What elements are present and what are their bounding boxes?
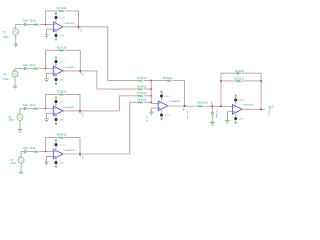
probe tick at output (269, 108, 271, 109)
svg-text:R7 56.2k: R7 56.2k (137, 93, 147, 95)
svg-text:R6 56.2k: R6 56.2k (137, 87, 147, 89)
svg-text:-15 V: -15 V (59, 119, 65, 121)
svg-text:vo4: vo4 (81, 156, 83, 160)
svg-text:56.2k: 56.2k (30, 65, 37, 67)
op-amp U2 (53, 66, 63, 76)
junction stage3 output node (79, 110, 81, 112)
U5 negative supply -15V terminal (160, 110, 170, 120)
ground at U1 non-inverting input (44, 35, 48, 38)
junction summing bus row 4 (150, 101, 152, 103)
wire stage2 input from V2 to U2 inverting input (15, 69, 53, 72)
resistor R1a input (33, 24, 39, 26)
probe tick at stage1 output (77, 28, 80, 30)
svg-text:mix_in: mix_in (146, 115, 148, 122)
svg-text:-15 V: -15 V (59, 79, 65, 81)
wire stage4 feedback loop (46, 138, 80, 154)
svg-text:+15 V: +15 V (59, 62, 65, 64)
resistor R1b feedback (59, 10, 65, 12)
ground below V1 (14, 44, 18, 47)
wire stage3 feedback loop (46, 94, 80, 111)
capacitor C3 (24, 107, 26, 110)
svg-text:1Vpk: 1Vpk (9, 120, 15, 122)
svg-text:V2: V2 (3, 74, 7, 76)
svg-text:R8 56.2k: R8 56.2k (137, 100, 147, 102)
junction rail R11 right (260, 80, 262, 82)
op-amp U6 filter (232, 105, 242, 115)
wire summing row 4 into node (130, 101, 152, 103)
wire V2 to ground (14, 77, 16, 86)
svg-text:out 1: out 1 (268, 105, 274, 108)
resistor R6 summing input (138, 88, 144, 90)
wire stage1 input from V1 to U1 inverting input (16, 24, 54, 28)
U2 positive supply +15V terminal (54, 56, 65, 66)
wire stage4 non-inverting input to ground (47, 156, 54, 161)
svg-text:U1 AD8605: U1 AD8605 (64, 22, 76, 25)
svg-text:U6 AD8605: U6 AD8605 (243, 104, 255, 107)
voltage source V4 (18, 156, 24, 163)
svg-text:+15 V: +15 V (239, 100, 245, 102)
svg-text:U4 AD8605: U4 AD8605 (64, 149, 76, 152)
svg-text:-15 V: -15 V (59, 163, 65, 165)
resistor R7 summing input (138, 95, 144, 97)
voltage source V3 (17, 113, 23, 120)
svg-text:56.2k: 56.2k (30, 148, 37, 150)
svg-text:R1 56.2k: R1 56.2k (57, 8, 67, 10)
svg-text:10nF: 10nF (23, 21, 29, 23)
U5 positive supply +15V terminal (160, 90, 171, 100)
svg-text:R11 56.2k: R11 56.2k (234, 79, 245, 81)
wire U5 feedback loop (151, 81, 184, 106)
capacitor C5 to ground (211, 112, 214, 114)
junction summing bus row 2 (150, 88, 152, 90)
U2 negative supply -15V terminal (54, 75, 64, 85)
junction stage4 output node (79, 153, 81, 155)
svg-text:-15 V: -15 V (164, 115, 170, 117)
wire stage2 output to summing row (63, 71, 97, 89)
junction stage4 inverting node (45, 151, 46, 152)
wire summing bus to U5 inverting input (151, 81, 158, 104)
wire U5 output row to U6 inverting input (168, 105, 233, 107)
svg-text:R2 56.2k: R2 56.2k (57, 47, 67, 49)
junction U5 output node (184, 105, 186, 107)
ground at U3 non-inverting input (44, 119, 48, 122)
resistor R5 summing input (138, 80, 144, 82)
wire stage4 input from V4 to U4 inverting input (21, 152, 53, 158)
svg-text:vout_1: vout_1 (267, 110, 270, 117)
ground at U4 non-inverting input (44, 162, 48, 165)
op-amp U3 (53, 106, 63, 116)
svg-text:10nF: 10nF (23, 148, 29, 150)
junction summing bus row 1 (150, 80, 152, 82)
probe tick at stage4 output (79, 155, 82, 157)
resistor R11 feedback (236, 80, 242, 82)
svg-text:+15 V: +15 V (59, 17, 65, 19)
U4 positive supply +15V terminal (54, 139, 65, 149)
U6 positive supply +15V terminal (234, 94, 245, 104)
wire U6 non-inverting input to ground (227, 112, 232, 121)
U3 positive supply +15V terminal (54, 96, 65, 106)
U6 negative supply -15V terminal (234, 114, 244, 124)
resistor R10 series (198, 105, 204, 107)
ground below C5 (210, 122, 214, 125)
junction stage3 inverting node (45, 108, 46, 109)
junction stage2 output node (79, 70, 81, 72)
wire U5 non-inverting input to ground (151, 108, 158, 112)
junction stage2 inverting node (45, 68, 46, 69)
junction summing bus row 3 (150, 95, 152, 97)
voltage source V2 (12, 70, 18, 77)
ground at U5 non-inverting input (149, 112, 153, 115)
wire node A feedback upper rail with C6 (221, 73, 261, 109)
svg-text:+15 V: +15 V (164, 96, 170, 98)
svg-text:vo3: vo3 (81, 112, 83, 116)
junction node A (220, 105, 222, 107)
wire U6 output (242, 108, 265, 110)
svg-text:U3 AD8605: U3 AD8605 (64, 106, 76, 109)
U4 negative supply -15V terminal (54, 158, 64, 168)
svg-text:U5 AD8605: U5 AD8605 (169, 100, 181, 103)
junction rail R11 left (220, 80, 222, 82)
svg-text:10nF: 10nF (23, 65, 29, 67)
probe tick at U5 output (182, 108, 185, 110)
wire stage1 non-inverting input to ground (47, 29, 54, 34)
svg-text:R10 56.2k: R10 56.2k (197, 102, 208, 104)
op-amp U5 summing amplifier (158, 101, 168, 111)
resistor R4a input (33, 151, 39, 153)
voltage source V1 (13, 27, 19, 34)
probe tick at stage3 output (79, 112, 82, 114)
capacitor C4 (24, 150, 26, 153)
resistor R3a input (33, 108, 39, 110)
circuit schematic: four AC-coupled inverting amplifier stages summed into U5 and low-pass filtered by U6 (0, 0, 320, 174)
wire summing row 3 into node (119, 95, 151, 97)
resistor R4b feedback (59, 137, 65, 139)
svg-text:C6 10nF: C6 10nF (235, 71, 245, 73)
wire C5 to ground (211, 106, 213, 122)
ground below V2 (13, 86, 17, 89)
svg-text:R5 56.2k: R5 56.2k (137, 78, 147, 80)
junction U6 output node (260, 108, 262, 110)
resistor R2b feedback (59, 50, 65, 52)
wire stage2 feedback loop (46, 50, 81, 71)
svg-text:56.2k: 56.2k (30, 105, 37, 107)
junction stage1 inverting node (45, 24, 46, 25)
svg-text:R3 56.2k: R3 56.2k (57, 92, 67, 94)
op-amp U1 (53, 22, 63, 32)
svg-text:1Vpk: 1Vpk (3, 79, 9, 81)
op-amp U4 (53, 149, 63, 159)
svg-text:U2 AD8605: U2 AD8605 (64, 66, 76, 69)
wire stage1 output to summing row (63, 27, 108, 81)
wire summing row 1 into node (108, 80, 152, 82)
svg-text:mix_out: mix_out (186, 111, 189, 119)
probe tick at stage2 output (79, 72, 82, 74)
wire stage3 non-inverting input to ground (47, 113, 54, 118)
svg-text:V1: V1 (3, 32, 7, 34)
wire summing row 2 into node (97, 88, 151, 90)
svg-text:1Vpk: 1Vpk (3, 37, 9, 39)
svg-text:+15 V: +15 V (59, 102, 65, 104)
svg-text:56.2k: 56.2k (30, 21, 37, 23)
junction capacitor C5 tap (211, 105, 213, 107)
resistor R3b feedback (59, 94, 65, 96)
ground below V3 (18, 130, 22, 133)
U1 negative supply -15V terminal (54, 31, 64, 41)
wire V4 to ground (20, 163, 22, 172)
ground at U2 non-inverting input (44, 79, 48, 82)
wire V3 to ground (19, 120, 21, 129)
wire node A feedback rail with R11 (221, 80, 261, 82)
svg-text:vo2: vo2 (81, 72, 83, 76)
resistor R9 feedback of U5 (167, 80, 173, 82)
ground below V4 (19, 172, 23, 175)
U1 positive supply +15V terminal (54, 12, 65, 22)
svg-text:V4: V4 (11, 160, 15, 162)
svg-text:R4 56.2k: R4 56.2k (57, 135, 67, 137)
U3 negative supply -15V terminal (54, 115, 64, 125)
svg-text:C5 10nF: C5 10nF (215, 109, 217, 118)
capacitor C2 (24, 67, 26, 70)
svg-text:10nF: 10nF (23, 105, 29, 107)
resistor R8 summing input (138, 102, 144, 104)
wire stage4 output to summing row (63, 102, 130, 154)
wire stage1 feedback loop (46, 11, 79, 27)
svg-text:vo1: vo1 (79, 28, 81, 32)
capacitor C1 (24, 23, 26, 26)
svg-text:-15 V: -15 V (59, 35, 65, 37)
wire stage2 non-inverting input to ground (47, 73, 54, 78)
ground at U6 non-inverting input (225, 120, 229, 123)
wire V1 to ground (15, 35, 17, 44)
svg-text:+15 V: +15 V (59, 145, 65, 147)
wire stage3 input from V3 to U3 inverting input (20, 109, 53, 115)
svg-text:R9 56.2k: R9 56.2k (163, 78, 173, 80)
capacitor C6 feedback (237, 72, 239, 75)
resistor R2a input (33, 68, 39, 70)
svg-text:1Vpk: 1Vpk (11, 163, 17, 165)
junction stage1 output node (78, 26, 80, 28)
svg-text:-15 V: -15 V (239, 118, 245, 120)
wire stage3 output to summing row (63, 96, 119, 111)
